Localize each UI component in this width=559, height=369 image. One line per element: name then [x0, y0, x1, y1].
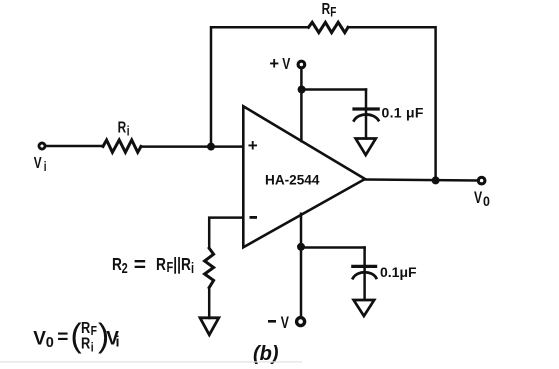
output terminal Vo: [478, 177, 485, 184]
node junction on -V wire: [297, 243, 305, 251]
svg-text:R: R: [112, 256, 122, 275]
capacitor C1 0.1uF stem: [365, 90, 368, 139]
ground for R2: [200, 318, 219, 335]
label Vi: [34, 153, 47, 174]
svg-text:HA-2544: HA-2544: [265, 173, 320, 188]
-V terminal: [297, 318, 305, 326]
svg-text:V: V: [282, 55, 291, 73]
svg-text:2: 2: [122, 260, 128, 277]
svg-text:i: i: [127, 123, 130, 139]
wire Vi to Ri: [47, 145, 103, 148]
+V terminal: [298, 61, 305, 68]
ground for C2: [354, 300, 375, 316]
label +V: [269, 55, 290, 73]
svg-text:i: i: [116, 335, 120, 351]
wire inverting input to R2: [209, 218, 243, 249]
wire R2 to ground: [208, 288, 211, 319]
wire +V supply down into op-amp top: [300, 69, 303, 141]
svg-text:=: =: [57, 327, 68, 348]
svg-text:0.1 μF: 0.1 μF: [382, 105, 424, 121]
svg-text:F: F: [167, 258, 174, 275]
ground for C1: [356, 139, 376, 156]
label Ri: [118, 118, 130, 139]
svg-text:R: R: [81, 335, 91, 353]
node junction output: [432, 176, 440, 184]
svg-text:V: V: [281, 314, 289, 332]
capacitor C1 curved plate: [354, 114, 378, 120]
svg-text:V: V: [474, 189, 482, 207]
svg-text:F: F: [330, 4, 336, 20]
wire junction to bypass cap C2: [301, 246, 365, 249]
input terminal Vi: [39, 143, 45, 149]
svg-text:R: R: [118, 118, 127, 136]
wire -V supply up into op-amp bottom: [300, 214, 303, 316]
svg-text:R: R: [156, 255, 166, 274]
svg-text:0: 0: [46, 335, 54, 351]
output wire from apex to Vo: [365, 180, 477, 181]
svg-text:i: i: [44, 158, 47, 174]
label Vo: [474, 189, 490, 209]
label RF: [322, 0, 337, 20]
svg-text:+: +: [248, 136, 258, 155]
resistor R2: [205, 248, 214, 287]
faint scan line bottom: [0, 361, 302, 362]
svg-text:=: =: [134, 254, 146, 277]
wire Ri to noninverting input: [141, 145, 243, 148]
svg-text:V: V: [33, 329, 46, 350]
capacitor C2 top plate: [353, 265, 376, 268]
capacitor C2 curved plate: [353, 272, 376, 278]
svg-text:F: F: [91, 324, 97, 338]
capacitor C2 0.1uF stem: [363, 248, 366, 300]
label R2 = RF||Ri: [112, 254, 194, 277]
resistor RF: [309, 22, 349, 32]
svg-text:i: i: [91, 340, 94, 354]
resistor Ri: [103, 140, 141, 152]
svg-text:0: 0: [483, 193, 490, 209]
label -V: [268, 314, 289, 332]
wire RF to right, down to output node: [348, 27, 436, 180]
svg-text:V: V: [34, 153, 42, 171]
node junction at + input: [207, 143, 215, 151]
svg-text:i: i: [191, 260, 194, 277]
svg-text:||R: ||R: [173, 255, 191, 274]
svg-text:+: +: [269, 55, 279, 73]
wire junction to bypass cap C1: [302, 88, 366, 91]
formula Vo = (RF/Ri)Vi: [33, 317, 119, 354]
op-amp U1 triangle: [243, 106, 365, 247]
wire feedback loop: up from junction, across top, down to output: [211, 27, 309, 146]
node junction on +V wire: [298, 86, 306, 94]
svg-text:0.1μF: 0.1μF: [380, 264, 417, 280]
svg-text:(: (: [71, 317, 82, 354]
svg-text:R: R: [322, 0, 331, 17]
op-amp - input sign: [250, 216, 258, 219]
capacitor C1 top plate: [354, 107, 378, 110]
